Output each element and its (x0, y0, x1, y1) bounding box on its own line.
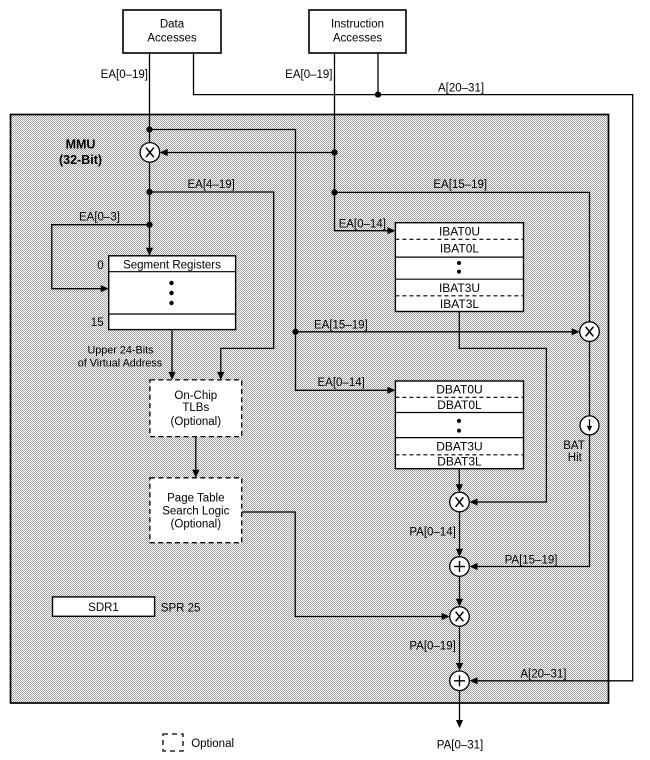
svg-text:TLBs: TLBs (182, 402, 209, 414)
svg-text:DBAT3U: DBAT3U (436, 439, 482, 453)
svg-text:PA[0–14]: PA[0–14] (409, 527, 455, 539)
svg-text:EA[0–19]: EA[0–19] (285, 69, 332, 81)
svg-text:Accesses: Accesses (147, 33, 196, 45)
svg-text:of Virtual Address: of Virtual Address (78, 358, 163, 370)
svg-text:SPR 25: SPR 25 (161, 603, 201, 615)
svg-text:DBAT0L: DBAT0L (437, 398, 482, 412)
svg-text:Instruction: Instruction (331, 19, 384, 31)
svg-text:(Optional): (Optional) (171, 519, 222, 531)
svg-text:EA[0–14]: EA[0–14] (339, 219, 386, 231)
svg-text:EA[0–3]: EA[0–3] (79, 212, 120, 224)
svg-text:DBAT3L: DBAT3L (437, 455, 482, 469)
svg-text:Upper 24-Bits: Upper 24-Bits (87, 345, 154, 357)
svg-text:PA[15–19]: PA[15–19] (505, 554, 558, 566)
svg-text:15: 15 (91, 317, 104, 329)
svg-text:EA[4–19]: EA[4–19] (188, 179, 235, 191)
svg-text:Accesses: Accesses (333, 33, 382, 45)
svg-text:EA[15–19]: EA[15–19] (433, 179, 487, 191)
svg-text:Data: Data (160, 19, 185, 31)
svg-text:PA[0–31]: PA[0–31] (437, 740, 483, 752)
svg-text:IBAT0U: IBAT0U (439, 224, 480, 238)
svg-text:DBAT0U: DBAT0U (436, 383, 482, 397)
svg-text:PA[0–19]: PA[0–19] (409, 641, 455, 653)
svg-text:EA[0–14]: EA[0–14] (318, 377, 365, 389)
svg-text:(32-Bit): (32-Bit) (59, 153, 102, 167)
svg-text:Page Table: Page Table (167, 493, 224, 505)
svg-text:IBAT3L: IBAT3L (440, 297, 479, 311)
svg-text:On-Chip: On-Chip (174, 390, 217, 402)
svg-text:IBAT0L: IBAT0L (440, 242, 479, 256)
svg-text:(Optional): (Optional) (171, 416, 222, 428)
svg-text:0: 0 (97, 260, 103, 272)
svg-text:A[20–31]: A[20–31] (520, 669, 566, 681)
svg-text:IBAT3U: IBAT3U (439, 281, 480, 295)
svg-text:SDR1: SDR1 (88, 602, 119, 614)
svg-text:MMU: MMU (66, 138, 96, 152)
svg-text:Segment Registers: Segment Registers (123, 259, 221, 271)
svg-text:Optional: Optional (191, 738, 234, 750)
svg-text:BAT: BAT (563, 440, 585, 452)
svg-text:Search Logic: Search Logic (162, 506, 229, 518)
svg-text:Hit: Hit (568, 452, 583, 464)
svg-text:EA[15–19]: EA[15–19] (314, 319, 368, 331)
svg-text:A[20–31]: A[20–31] (438, 83, 484, 95)
svg-text:EA[0–19]: EA[0–19] (101, 69, 148, 81)
